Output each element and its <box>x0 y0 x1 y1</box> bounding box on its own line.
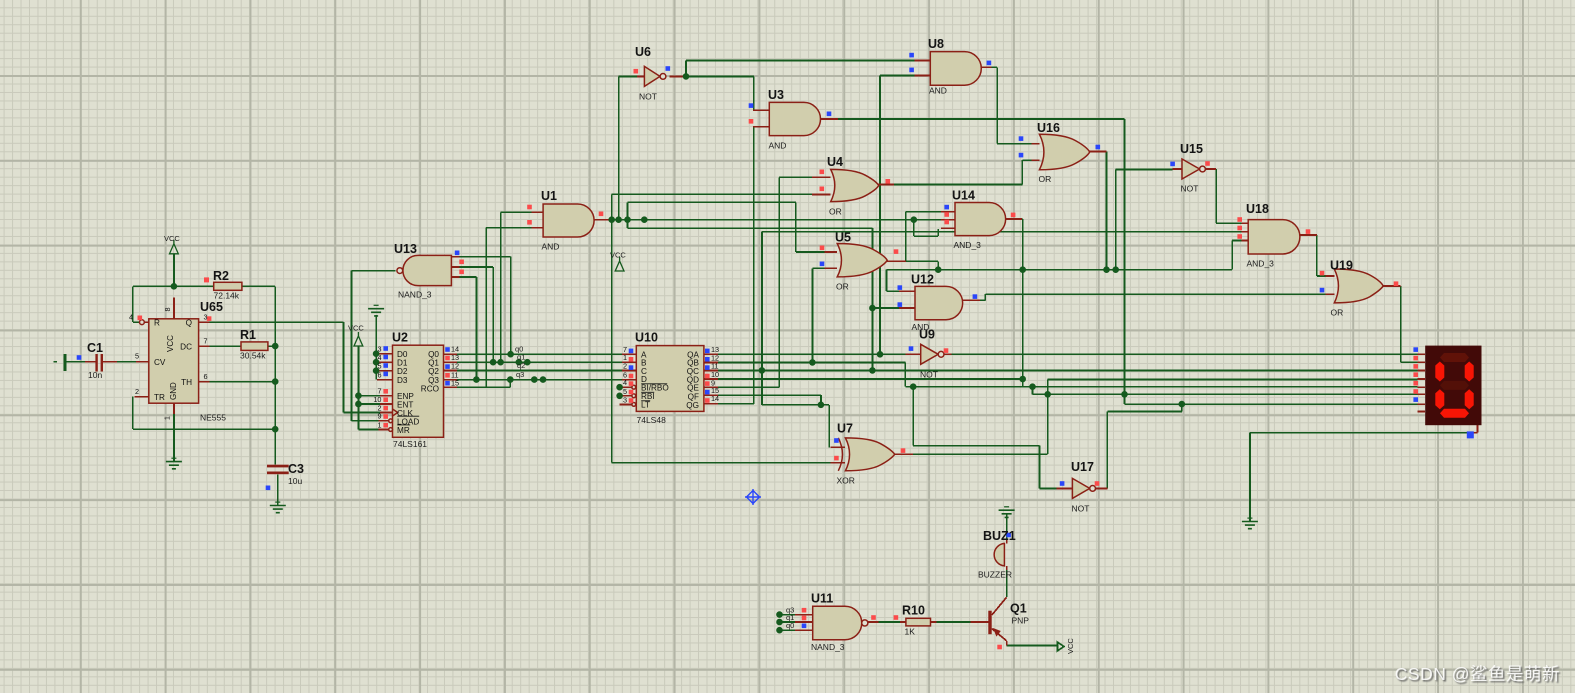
svg-text:NOT: NOT <box>1181 184 1199 194</box>
svg-text:AND: AND <box>542 242 560 252</box>
svg-text:OR: OR <box>1039 174 1052 184</box>
svg-text:R2: R2 <box>213 269 229 283</box>
svg-text:Q1: Q1 <box>1010 602 1027 616</box>
svg-text:3: 3 <box>623 395 627 404</box>
svg-text:7: 7 <box>204 337 208 346</box>
svg-text:VCC: VCC <box>166 335 175 352</box>
svg-text:AND_3: AND_3 <box>1247 259 1275 269</box>
svg-text:RCO: RCO <box>421 384 439 393</box>
svg-text:BUZZER: BUZZER <box>978 570 1012 580</box>
svg-text:U12: U12 <box>911 273 934 287</box>
svg-text:6: 6 <box>204 372 208 381</box>
svg-text:6: 6 <box>377 370 381 379</box>
svg-text:VCC: VCC <box>1066 638 1075 654</box>
svg-text:Q2: Q2 <box>428 367 439 376</box>
svg-text:U19: U19 <box>1330 259 1353 273</box>
svg-text:U7: U7 <box>837 422 853 436</box>
svg-text:QG: QG <box>686 401 699 410</box>
svg-text:9: 9 <box>377 412 381 421</box>
svg-text:R: R <box>154 319 160 328</box>
svg-text:8: 8 <box>163 307 172 311</box>
svg-text:U16: U16 <box>1037 121 1060 135</box>
svg-text:U4: U4 <box>827 155 843 169</box>
svg-text:U3: U3 <box>768 88 784 102</box>
svg-text:C1: C1 <box>87 341 103 355</box>
svg-text:AND: AND <box>912 322 930 332</box>
svg-text:U5: U5 <box>835 231 851 245</box>
svg-text:OR: OR <box>1331 308 1344 318</box>
svg-text:2: 2 <box>623 361 627 370</box>
svg-text:TH: TH <box>181 378 192 387</box>
svg-text:U10: U10 <box>635 331 658 345</box>
svg-text:5: 5 <box>377 362 381 371</box>
svg-text:U2: U2 <box>392 331 408 345</box>
svg-text:4: 4 <box>129 313 133 322</box>
svg-text:AND_3: AND_3 <box>954 240 982 250</box>
svg-text:VCC: VCC <box>610 251 626 260</box>
svg-text:10u: 10u <box>288 476 302 486</box>
svg-text:1K: 1K <box>905 627 916 637</box>
svg-text:14: 14 <box>711 394 719 403</box>
svg-text:2: 2 <box>135 387 139 396</box>
svg-text:BUZ1: BUZ1 <box>983 529 1016 543</box>
svg-text:DC: DC <box>180 343 192 352</box>
svg-text:OR: OR <box>836 282 849 292</box>
svg-text:NOT: NOT <box>639 92 657 102</box>
svg-text:U6: U6 <box>635 45 651 59</box>
svg-text:10n: 10n <box>88 370 102 380</box>
svg-text:R1: R1 <box>240 328 256 342</box>
svg-text:30.54k: 30.54k <box>240 351 266 361</box>
svg-text:72.14k: 72.14k <box>214 291 240 301</box>
svg-text:TR: TR <box>154 393 165 402</box>
svg-text:3: 3 <box>204 313 208 322</box>
svg-text:74LS48: 74LS48 <box>637 415 667 425</box>
svg-text:q2: q2 <box>517 361 525 370</box>
svg-text:5: 5 <box>135 352 139 361</box>
svg-text:VCC: VCC <box>164 234 180 243</box>
svg-text:U17: U17 <box>1071 460 1094 474</box>
svg-text:D3: D3 <box>397 376 408 385</box>
svg-text:U11: U11 <box>811 592 833 606</box>
svg-text:12: 12 <box>451 361 459 370</box>
svg-text:Q: Q <box>186 319 192 328</box>
svg-text:q0: q0 <box>786 621 794 630</box>
svg-text:U8: U8 <box>928 37 944 51</box>
svg-text:AND: AND <box>769 141 787 151</box>
svg-text:R10: R10 <box>902 604 925 618</box>
svg-text:U14: U14 <box>952 189 975 203</box>
svg-text:NE555: NE555 <box>200 413 226 423</box>
svg-text:U15: U15 <box>1180 142 1203 156</box>
svg-text:CV: CV <box>154 358 166 367</box>
svg-text:15: 15 <box>451 378 459 387</box>
svg-text:D2: D2 <box>397 367 408 376</box>
svg-text:NOT: NOT <box>1072 504 1090 514</box>
svg-text:PNP: PNP <box>1012 616 1030 626</box>
svg-text:1: 1 <box>165 416 172 420</box>
svg-text:q3: q3 <box>516 370 524 379</box>
svg-text:LT: LT <box>641 400 650 409</box>
svg-text:U18: U18 <box>1246 202 1269 216</box>
svg-text:OR: OR <box>829 207 842 217</box>
svg-text:C3: C3 <box>288 462 304 476</box>
svg-text:NAND_3: NAND_3 <box>398 290 432 300</box>
svg-text:U1: U1 <box>541 189 557 203</box>
svg-text:74LS161: 74LS161 <box>393 439 427 449</box>
svg-text:NAND_3: NAND_3 <box>811 642 845 652</box>
svg-text:XOR: XOR <box>837 476 855 486</box>
svg-text:VCC: VCC <box>348 324 364 333</box>
svg-text:AND: AND <box>929 86 947 96</box>
svg-text:NOT: NOT <box>920 370 938 380</box>
svg-text:MR: MR <box>397 426 410 435</box>
svg-text:U13: U13 <box>394 242 417 256</box>
svg-text:GND: GND <box>169 382 178 400</box>
svg-text:1: 1 <box>377 420 381 429</box>
